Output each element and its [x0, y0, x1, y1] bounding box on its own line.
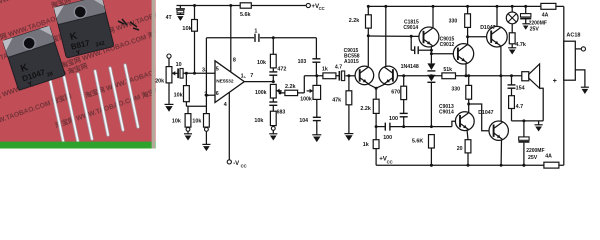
wire lower bias (y=126.6) — [376, 121, 455, 126]
node (rail corner 2.2k) — [367, 5, 370, 8]
node (rail / 330) — [466, 5, 469, 8]
svg-text:103: 103 — [298, 59, 307, 65]
ground (lamp chain) — [508, 48, 516, 55]
wire VAS base — [368, 35, 419, 37]
svg-text:AC18: AC18 — [566, 32, 580, 38]
transistor Q7 D1047 (lower output) — [489, 121, 508, 140]
potentiometer 20k — [166, 67, 172, 83]
wire driver base — [431, 53, 453, 55]
photo: transistor D1047 (left) — [3, 26, 66, 92]
wire 2.2k up to tone wire — [303, 76, 305, 93]
resistor 47k — [346, 74, 352, 133]
resistor 5.6K (diode chain) — [429, 135, 435, 167]
node (diode chain / lower wire) — [430, 125, 433, 128]
svg-text:10k: 10k — [174, 93, 183, 99]
node (rail / top cap) — [524, 5, 527, 8]
svg-text:2200MF: 2200MF — [526, 148, 544, 154]
fuse 4A (bottom) — [544, 162, 559, 168]
wire Q7 emitter down — [500, 140, 503, 167]
wire Q4 collector down — [465, 63, 467, 76]
wire Q6 emitter — [467, 130, 468, 140]
node (comp cap / emitter) — [430, 49, 433, 52]
svg-text:4: 4 — [224, 102, 227, 108]
wire Q3 emitter to diodes — [430, 47, 432, 64]
node (330 lower / Q7 base) — [467, 103, 470, 106]
resistor 51k — [442, 73, 456, 79]
svg-text:D1047: D1047 — [478, 110, 493, 116]
svg-text:4A: 4A — [542, 13, 549, 19]
ground (10k-c) — [202, 131, 210, 151]
svg-text:+: + — [553, 78, 557, 85]
wire right vertical (AC) — [563, 6, 565, 165]
node (rail / pin8) — [229, 4, 232, 7]
svg-text:10k: 10k — [254, 118, 263, 124]
diode D2 1N4148 — [427, 75, 435, 83]
wire wiper to 2.2k — [279, 91, 281, 93]
speaker — [522, 64, 540, 88]
transistor Q6 C9013/C9014 (lower driver) — [455, 112, 474, 131]
capacitor 100 (670 chain) — [400, 113, 408, 128]
wire input to 20k pot — [168, 58, 170, 66]
capacitor 1 (in feedback wire) — [255, 34, 260, 42]
svg-text:330: 330 — [449, 18, 458, 24]
terminal (output chain bottom) — [271, 126, 275, 131]
wire transformer tap 2 — [575, 70, 585, 87]
node (tail chain / lower wire) — [375, 125, 378, 128]
svg-text:C9014: C9014 — [403, 25, 418, 31]
ground (104) — [312, 135, 321, 142]
svg-text:2.2k: 2.2k — [360, 106, 371, 112]
wire transformer tap 1 — [575, 48, 581, 50]
resistor 10k-a (input divider) — [184, 73, 190, 106]
op-amp U1 NE5532 — [215, 61, 244, 103]
capacitor 10 (input coupling) — [178, 69, 183, 79]
svg-text:C9012: C9012 — [440, 42, 455, 48]
svg-text:683: 683 — [277, 109, 286, 115]
wire inverting input (pins 2,6) — [206, 94, 215, 96]
svg-text:5.6k: 5.6k — [240, 12, 251, 18]
transistor Q4 C9015/C9012 (driver) — [453, 44, 473, 64]
resistor 2.2k — [285, 90, 298, 95]
diode D1 1N4148 — [427, 63, 435, 71]
capacitor 472 (feedback) — [269, 68, 277, 82]
svg-text:1N4148: 1N4148 — [401, 64, 419, 70]
svg-text:4.7k: 4.7k — [515, 42, 526, 48]
wiper arrow of 20k pot — [172, 71, 178, 75]
svg-text:25V: 25V — [530, 27, 540, 33]
svg-text:2.2k: 2.2k — [349, 18, 360, 24]
terminal +Vcc (top) — [306, 3, 310, 7]
svg-text:100: 100 — [383, 135, 392, 141]
photo: green strip — [0, 142, 156, 149]
node (wiper / 2.2k) — [279, 91, 282, 94]
resistor 10k-b (to ground) — [185, 106, 191, 127]
capacitor C 4T (input supply decoupling) — [176, 6, 185, 15]
resistor 5.6k (rail) — [240, 3, 251, 8]
wire Q5 collector to rail — [496, 6, 498, 26]
wire Q5 emitter to output node — [500, 47, 502, 76]
svg-text:10k: 10k — [182, 26, 192, 32]
transistor Q2 (C9015/BC558/A1015 right) — [379, 66, 398, 85]
transformer AC18 winding — [564, 41, 576, 80]
svg-text:10k: 10k — [192, 119, 201, 125]
node (output wire / 330 lower) — [467, 74, 470, 77]
ground (47k) — [344, 134, 353, 141]
svg-text:NE5532: NE5532 — [216, 78, 234, 84]
photo: red background — [0, 0, 203, 149]
capacitor 2200MF 25V (top) — [520, 6, 531, 23]
node (driver base tap) — [430, 52, 433, 55]
wire top rail (right section) — [368, 5, 564, 7]
node (VAS base tap) — [367, 34, 370, 37]
lamp (power indicator) — [506, 6, 518, 23]
svg-text:20: 20 — [457, 146, 463, 152]
wire Q2 collector to rail — [385, 6, 387, 66]
photo: dark marks top right — [118, 19, 139, 30]
node (input / 10k-a) — [185, 72, 188, 75]
ground (10k-b) — [184, 131, 192, 140]
svg-text:4.7: 4.7 — [516, 104, 524, 110]
labels C9015 BC558 A1015 — [344, 48, 360, 65]
wire Q3 collector to rail — [432, 6, 434, 27]
wire to Q7 base — [469, 104, 489, 131]
svg-text:154: 154 — [516, 85, 525, 91]
svg-text:670: 670 — [391, 90, 400, 96]
wire to Q5 base — [468, 36, 487, 38]
resistor 330 (lower) — [466, 76, 472, 112]
svg-text:4A: 4A — [545, 153, 552, 159]
wire Zobel ground bus — [512, 120, 544, 122]
svg-text:7: 7 — [250, 73, 253, 79]
wire non-inverting input (pins 3,5) — [183, 72, 215, 74]
ground (below 4T) — [177, 14, 185, 20]
svg-text:20k: 20k — [155, 79, 164, 85]
potentiometer 100k (volume) — [313, 76, 321, 100]
wire feedback (node A, y=37.8) — [206, 37, 316, 39]
node (wire A / 10k-472 branch) — [272, 36, 275, 39]
ground (tap 2) — [581, 87, 589, 94]
wire pin 8 (V+ of NE5532) — [230, 6, 232, 73]
capacitor 104 — [313, 99, 321, 134]
svg-text:1: 1 — [254, 29, 257, 35]
svg-text:CC: CC — [387, 159, 393, 164]
capacitor 100 (in lower wire) — [385, 123, 390, 131]
terminal input jack — [167, 54, 171, 58]
capacitor 2200MF 25V (bottom) — [518, 121, 529, 167]
ground (top cap) — [522, 24, 529, 30]
label +Vcc (top) — [311, 3, 324, 11]
svg-text:472: 472 — [277, 67, 286, 73]
svg-text:6: 6 — [216, 91, 219, 97]
svg-text:3、: 3、 — [202, 67, 210, 73]
wire 20k pot to ground — [168, 83, 170, 104]
wire top supply rail (left section) — [177, 5, 307, 7]
svg-text:330: 330 — [451, 87, 460, 93]
node (rail / lamp) — [511, 5, 514, 8]
resistor 330 (upper) — [465, 6, 471, 45]
svg-text:CC: CC — [241, 163, 247, 168]
svg-text:4.7: 4.7 — [335, 65, 342, 71]
svg-text:51k: 51k — [443, 67, 452, 73]
ground (below 20k pot) — [165, 104, 174, 111]
svg-text:D1047: D1047 — [480, 25, 495, 31]
node (inverting input) — [205, 94, 208, 97]
photo: transistor B817 (right) — [54, 0, 114, 60]
capacitor 4.7 (coupling) — [339, 71, 344, 81]
node (tail) — [375, 87, 378, 90]
resistor 4.7k (lamp) — [509, 24, 515, 48]
node (diode / feedback wire) — [430, 74, 433, 77]
wire pin 4 (V-) — [228, 92, 230, 160]
resistor 2.2k (diff pair supply) — [366, 6, 372, 66]
svg-text:104: 104 — [299, 118, 308, 124]
svg-text:4T: 4T — [166, 15, 173, 21]
node (330 / D1047 base) — [466, 35, 469, 38]
svg-text:-V: -V — [233, 161, 239, 167]
wire diff pair tail — [368, 84, 385, 88]
resistor 10k (rail to +input bias) — [192, 6, 198, 74]
labels C9015 C9012 — [440, 36, 455, 48]
resistor 2.2k (tail) — [373, 88, 379, 126]
capacitor (compensation) — [411, 36, 431, 54]
node (rail / Q3) — [432, 5, 435, 8]
node (rail / Q5) — [496, 5, 499, 8]
resistor 10k-c (inverting to ground) — [204, 114, 210, 128]
terminal (10k-b bottom) — [186, 127, 190, 131]
wire tone (y=75.8) — [304, 75, 339, 77]
node (bottom rail / 5.6K) — [430, 164, 433, 167]
svg-text:C9014: C9014 — [439, 110, 454, 116]
resistor 4.7 (Zobel) — [509, 96, 515, 121]
resistor 1k (tone) — [323, 73, 336, 79]
labels C9013 C9014 — [439, 104, 454, 116]
wire op-amp output (pins 1,7) — [244, 81, 273, 83]
node (output junction) — [272, 80, 275, 83]
svg-text:2.2k: 2.2k — [285, 84, 296, 90]
transistor Q1 (C9015/BC558/A1015 left) — [355, 66, 374, 85]
resistor 20 — [465, 140, 471, 167]
potentiometer 100k (feedback pot) — [270, 84, 276, 98]
wiper arrow of 100k pot — [276, 89, 282, 93]
svg-text:100k: 100k — [300, 97, 312, 103]
transistor Q5 D1047 (upper output) — [487, 26, 508, 47]
svg-text:8: 8 — [233, 57, 236, 63]
terminal (10k-c bottom) — [205, 127, 209, 131]
svg-text:5: 5 — [216, 67, 219, 73]
svg-text:25V: 25V — [528, 155, 538, 161]
node (comp cap tap) — [410, 35, 413, 38]
svg-text:47k: 47k — [332, 97, 341, 103]
resistor 10k (output chain) — [270, 111, 276, 125]
svg-text:10k: 10k — [172, 119, 181, 125]
ground (output chain) — [269, 130, 277, 140]
resistor 670 — [401, 74, 407, 113]
svg-text:1k: 1k — [363, 142, 369, 148]
node (103 / tone wire) — [315, 74, 318, 77]
resistor 10k (feedback) — [270, 38, 276, 68]
node (rail / 10k) — [193, 4, 196, 7]
wire speaker return — [540, 88, 544, 121]
svg-text:10k: 10k — [257, 60, 266, 66]
labels C1815 C9014 — [403, 19, 419, 31]
capacitor 154 (Zobel) — [508, 76, 516, 96]
node (bus / 2200 cap) — [522, 119, 525, 122]
photo: transistor leads — [50, 65, 138, 145]
photo: right border — [152, 0, 155, 149]
node (output node) — [499, 74, 502, 77]
wire node F (y=106.3) — [186, 105, 206, 107]
wire feedback vertical to inverting input — [205, 38, 207, 114]
node (Q4 collector / output wire) — [465, 74, 468, 77]
svg-text:1k: 1k — [322, 66, 328, 72]
node (input / bias 10k) — [193, 72, 196, 75]
terminal -Vcc — [227, 160, 231, 164]
wire Q7 collector up — [500, 76, 502, 122]
svg-text:CC: CC — [319, 6, 325, 11]
label +Vcc (bottom) — [379, 156, 392, 165]
node (rail / Q2) — [384, 5, 387, 8]
transistor Q3 C1815/C9014 (VAS) — [419, 27, 439, 47]
svg-text:2、: 2、 — [204, 91, 212, 97]
capacitor 683 — [269, 98, 277, 111]
svg-text:5.6K: 5.6K — [412, 138, 423, 144]
svg-text:100: 100 — [389, 116, 398, 122]
wiper arrow of volume pot — [307, 89, 313, 93]
wire 2.2k branch — [280, 92, 304, 94]
wire diode chain down — [430, 83, 432, 127]
label -Vcc — [233, 161, 246, 168]
resistor 1k (to +Vcc) — [373, 127, 379, 166]
svg-text:10: 10 — [176, 62, 182, 68]
capacitor 103 — [312, 38, 320, 76]
svg-text:A1015: A1015 — [344, 59, 359, 65]
svg-text:1、: 1、 — [241, 73, 249, 79]
wire 4.7 cap to diff pair base — [345, 75, 355, 77]
svg-text:100k: 100k — [255, 90, 267, 96]
ground (output bus) — [535, 121, 543, 132]
terminal (tap 1) — [581, 47, 585, 51]
svg-text:2200MF: 2200MF — [529, 20, 547, 26]
wire bottom rail — [376, 164, 564, 166]
node (bottom rail / 2200) — [522, 164, 525, 167]
fuse 4A (top) — [541, 3, 556, 9]
node (output / Zobel) — [510, 74, 513, 77]
wire feedback/output (y=75.8) — [398, 75, 522, 77]
